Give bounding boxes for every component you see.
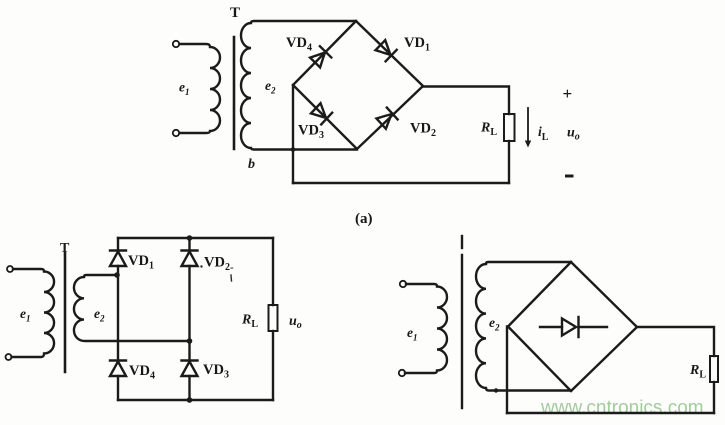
wire: bottom rail to load [293, 182, 509, 184]
wire: right bridge node to load RL top [423, 87, 509, 115]
transformer T3 secondary winding e2 with top lead to bridge top node and bottom lead to bridge bottom node [476, 262, 571, 391]
wire: left bridge node down to bottom rail (c) [506, 327, 508, 414]
svg-text:+: + [563, 84, 573, 103]
svg-text:e1: e1 [179, 80, 190, 98]
transformer T2 primary terminal (top) [7, 266, 13, 272]
transformer T2 primary terminal (bottom) [6, 354, 12, 360]
svg-text:RL: RL [689, 363, 706, 381]
transformer T3 primary terminal (top) [400, 281, 406, 287]
resistor RL (circuit a) [504, 114, 515, 141]
diode VD1 (b) [110, 251, 126, 267]
svg-text:VD1: VD1 [128, 253, 154, 272]
bridge diamond wires (circuit a) [293, 21, 423, 149]
svg-text:e2: e2 [489, 315, 500, 333]
svg-text:T: T [60, 241, 70, 256]
svg-text:RL: RL [480, 121, 497, 139]
transformer T1 primary terminal (top) [173, 41, 179, 47]
wire: left branch middle segment [117, 266, 119, 360]
svg-text:T: T [230, 5, 240, 21]
svg-text:RL: RL [241, 313, 258, 331]
transformer T3 core [461, 255, 463, 408]
svg-text:e1: e1 [20, 306, 31, 324]
junction at top rail / right branch [187, 235, 193, 241]
svg-text:uo: uo [289, 314, 302, 331]
diode VD3 (b) [182, 361, 198, 377]
transformer T1 core [233, 37, 236, 149]
transformer T1 primary terminal (bottom) [173, 130, 179, 136]
junction blob on secondary bottom lead (c) [494, 388, 498, 392]
bridge diamond (circuit c) [508, 262, 637, 391]
current arrow iL [527, 108, 529, 142]
transformer T1 primary winding e1 [180, 44, 221, 133]
wire: right side down to RL [272, 238, 274, 305]
svg-text:uo: uo [567, 126, 580, 143]
transformer T1 secondary winding e2 + wire to bridge top node and node b wire [241, 21, 357, 150]
wire: right branch lower segment [188, 376, 190, 400]
svg-text:e1: e1 [407, 325, 418, 343]
svg-text:www.cntronics.com: www.cntronics.com [540, 398, 704, 419]
svg-text:VD4: VD4 [129, 363, 155, 382]
junction at bottom rail / right branch [187, 397, 193, 403]
svg-text:b: b [248, 157, 255, 172]
wire: left branch upper segment [117, 238, 119, 250]
diode VD3 [310, 102, 332, 124]
diode inside bridge (right lead) [579, 326, 608, 328]
svg-text:VD3: VD3 [203, 362, 229, 381]
svg-text:VD1: VD1 [404, 35, 430, 54]
junction at secondary top / left branch [114, 272, 120, 278]
wire: RL bottom to bottom rail [272, 331, 274, 400]
junction at secondary bottom / right branch [187, 338, 193, 344]
wire: right branch middle segment [188, 266, 190, 360]
wire: left bridge node down to bottom rail [292, 85, 294, 183]
svg-text:e2: e2 [265, 78, 276, 96]
wire: bottom rail (c) [507, 412, 714, 414]
resistor RL (circuit c) [710, 356, 718, 382]
svg-text:VD3: VD3 [298, 123, 324, 142]
wire: right branch upper segment [188, 238, 190, 250]
diode VD4 [309, 46, 331, 68]
wire: RL bottom to bottom rail [508, 141, 510, 183]
label minus [565, 175, 574, 178]
diode inside bridge symbol [562, 317, 579, 337]
resistor RL (circuit b) [269, 305, 278, 331]
wire: right bridge node to RL (c) [637, 327, 714, 356]
svg-text:iL: iL [538, 124, 549, 143]
transformer T3 core tick [461, 236, 463, 248]
svg-text:VD2-: VD2- [204, 255, 234, 274]
wire: left branch lower segment [117, 376, 119, 400]
transformer T2 primary winding e1 [12, 269, 55, 357]
transformer T2 secondary winding e2 with top lead to node, bottom lead to node [74, 275, 190, 341]
diode inside bridge (left lead) [540, 326, 562, 328]
transformer T2 core [64, 253, 67, 372]
wire: RL bottom to bottom rail (c) [713, 382, 715, 413]
transformer T3 primary terminal (bottom) [399, 370, 405, 376]
scan speck left of VD2 label [200, 265, 202, 267]
diode VD1 [375, 39, 397, 61]
junction blob at b-wire crossing [291, 147, 296, 152]
svg-text:(a): (a) [355, 211, 373, 227]
diode VD2 [376, 108, 398, 130]
svg-text:VD2: VD2 [410, 121, 436, 140]
wire: top rail [118, 237, 273, 239]
diode VD4 (b) [110, 361, 126, 377]
svg-text:VD4: VD4 [286, 35, 312, 54]
svg-text:e2: e2 [94, 306, 105, 324]
scan tick below VD2 label [230, 275, 233, 281]
wire: bottom rail [118, 399, 273, 401]
transformer T3 primary winding e1 [405, 284, 447, 373]
diode VD2 (b) [182, 251, 198, 267]
